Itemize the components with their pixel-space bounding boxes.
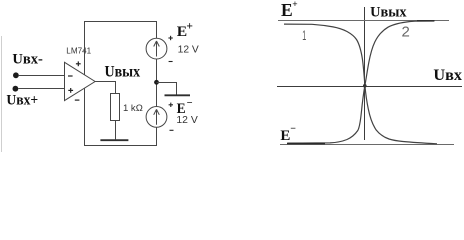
svg-text:Uвых: Uвых <box>370 4 407 20</box>
source E+ arrow <box>154 41 160 57</box>
svg-text:Uвых: Uвых <box>105 63 141 80</box>
resistor R1 1 kΩ <box>111 94 120 121</box>
node Uвх+ terminal dot <box>13 86 19 92</box>
svg-text:1 kΩ: 1 kΩ <box>123 103 143 113</box>
ground bar (load) <box>100 139 128 141</box>
E+ saturation level line <box>278 20 449 22</box>
source E- polarity - <box>170 129 174 131</box>
ground bar (supply midpoint) <box>165 94 191 96</box>
svg-text:−: − <box>187 98 193 109</box>
svg-text:Uвх-: Uвх- <box>12 51 43 67</box>
op-amp inverting input mark - <box>68 75 73 77</box>
svg-text:12 V: 12 V <box>178 45 199 56</box>
wire resistor to ground <box>115 121 117 140</box>
svg-text:E: E <box>281 0 293 20</box>
source E- polarity + <box>169 103 173 107</box>
wire inverting input <box>19 75 65 77</box>
op-amp noninverting input mark + <box>68 88 73 93</box>
source E- circle <box>146 107 167 128</box>
svg-text:12 V: 12 V <box>176 115 197 126</box>
curve 2 saturated tail emphasis (top-right) <box>417 20 435 22</box>
wire positive supply to E+ <box>85 22 157 75</box>
op-amp U1 LM741 triangle <box>65 62 96 100</box>
screen-edge artifact line <box>1 36 3 152</box>
node crossing dot <box>363 84 367 88</box>
svg-text:−: − <box>290 124 296 135</box>
wire op-amp output <box>95 82 115 94</box>
source E+ polarity + <box>168 36 172 40</box>
source E+ circle <box>146 38 167 59</box>
svg-text:Uвх+: Uвх+ <box>6 92 38 108</box>
axis Uвых (vertical) <box>364 7 366 140</box>
op-amp positive supply mark + <box>76 61 81 66</box>
node junction dot <box>154 80 159 85</box>
svg-text:E: E <box>280 128 290 144</box>
curve 2 saturated tail emphasis (bottom-left) <box>287 143 325 145</box>
svg-text:1: 1 <box>302 28 306 43</box>
wire E+ to E- with junction <box>156 59 158 107</box>
E- saturation level line <box>280 144 454 146</box>
wire E- to bottom rail and negative supply riser <box>85 88 157 145</box>
svg-text:LM741: LM741 <box>66 45 91 55</box>
wire noninverting input <box>18 88 64 90</box>
svg-text:+: + <box>186 21 193 33</box>
source E+ polarity - <box>169 61 173 63</box>
svg-text:Uвх: Uвх <box>433 67 462 84</box>
op-amp negative supply mark - <box>75 99 80 101</box>
source E- arrow <box>154 109 160 125</box>
svg-text:2: 2 <box>402 24 410 41</box>
node Uвх- terminal dot <box>13 72 19 78</box>
curve 1 (inverting characteristic) <box>284 24 437 144</box>
svg-text:+: + <box>292 0 297 10</box>
wire to ground tap <box>157 83 177 95</box>
curve 2 (noninverting characteristic) <box>288 21 434 143</box>
axis Uвх (horizontal) <box>277 86 462 88</box>
